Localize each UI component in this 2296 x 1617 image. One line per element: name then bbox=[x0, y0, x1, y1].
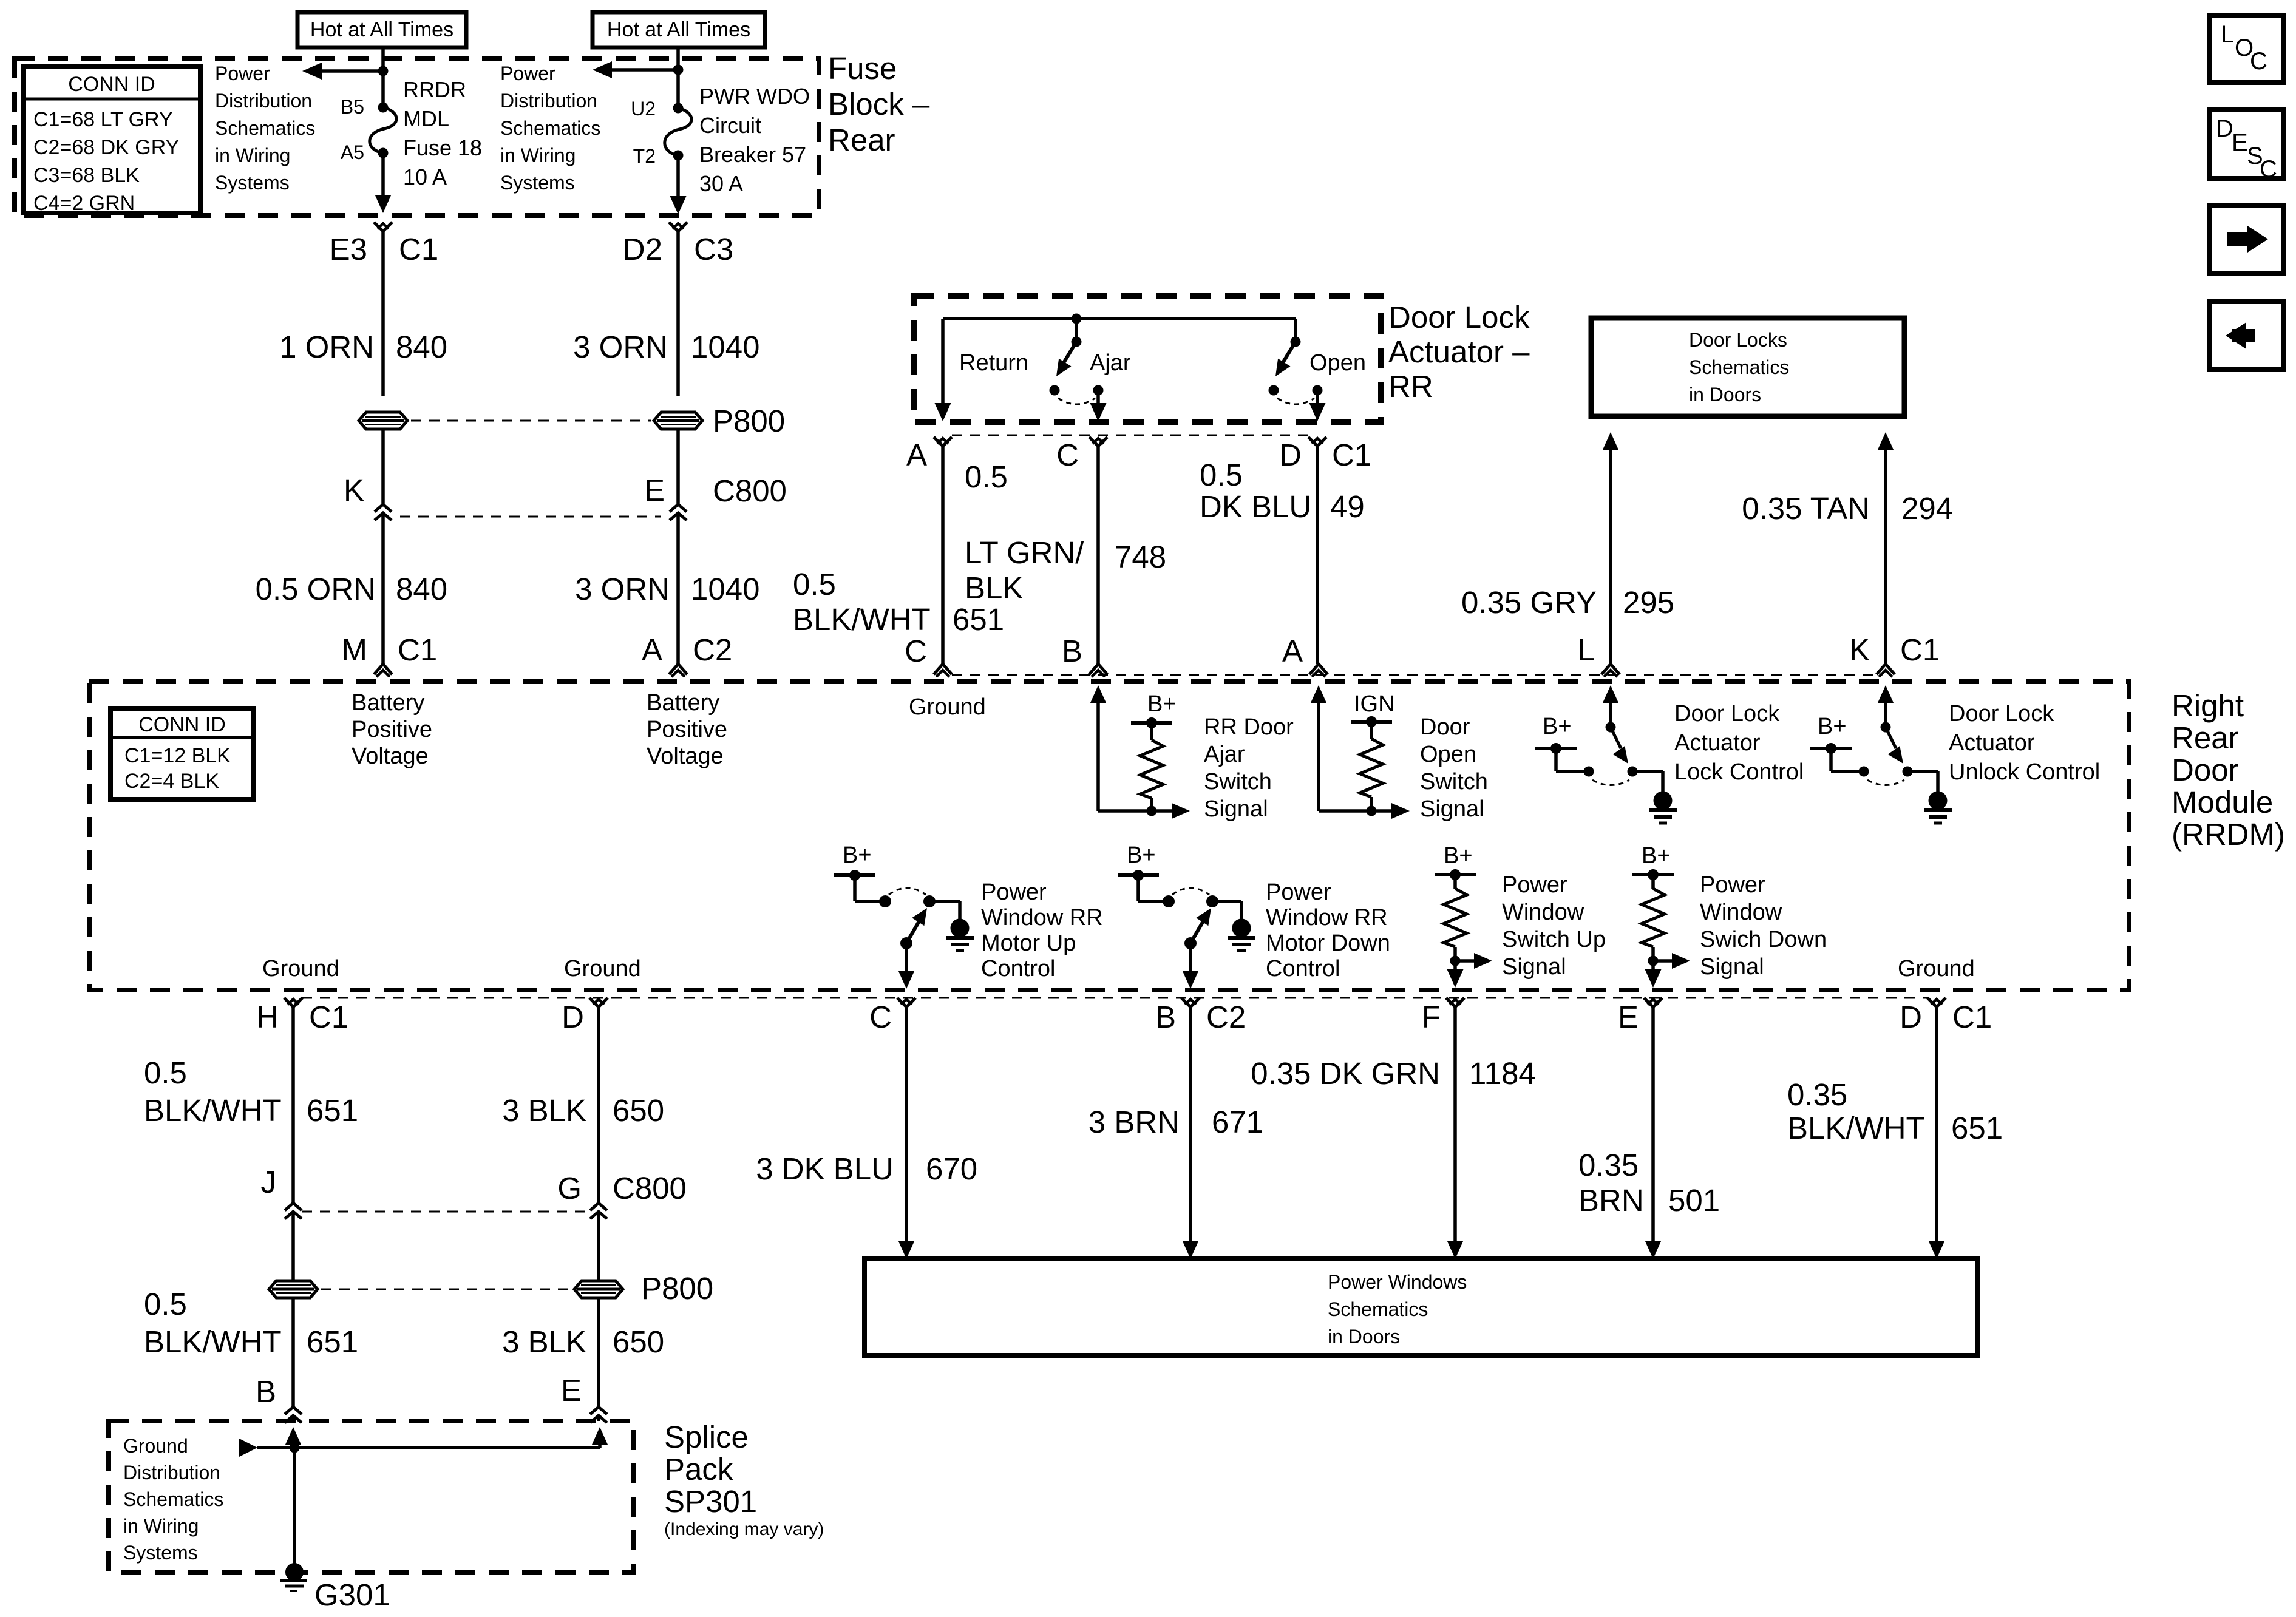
svg-text:Power: Power bbox=[981, 880, 1047, 905]
svg-text:0.35 TAN: 0.35 TAN bbox=[1742, 491, 1870, 526]
svg-text:Power: Power bbox=[1266, 880, 1331, 905]
svg-text:Systems: Systems bbox=[215, 172, 290, 194]
svg-text:Power: Power bbox=[215, 63, 270, 84]
svg-text:Fuse: Fuse bbox=[828, 51, 897, 86]
svg-text:P800: P800 bbox=[641, 1271, 713, 1306]
svg-text:B+: B+ bbox=[1818, 714, 1847, 739]
svg-text:Actuator –: Actuator – bbox=[1388, 334, 1530, 369]
svg-text:3 ORN: 3 ORN bbox=[573, 330, 668, 364]
svg-text:Door Lock: Door Lock bbox=[1949, 701, 2054, 727]
svg-text:Fuse 18: Fuse 18 bbox=[403, 135, 482, 160]
svg-text:Voltage: Voltage bbox=[352, 744, 429, 769]
svg-text:C: C bbox=[2260, 156, 2277, 183]
svg-text:RR: RR bbox=[1388, 369, 1433, 404]
svg-text:BLK: BLK bbox=[965, 571, 1023, 605]
svg-text:0.35: 0.35 bbox=[1578, 1148, 1639, 1182]
svg-text:G: G bbox=[557, 1171, 582, 1205]
svg-text:C1=68 LT GRY: C1=68 LT GRY bbox=[33, 108, 173, 131]
svg-text:10 A: 10 A bbox=[403, 164, 447, 189]
svg-text:Right: Right bbox=[2172, 688, 2244, 723]
svg-text:BLK/WHT: BLK/WHT bbox=[144, 1324, 282, 1359]
svg-text:P800: P800 bbox=[713, 404, 785, 438]
svg-text:C1: C1 bbox=[1332, 438, 1371, 472]
svg-text:Open: Open bbox=[1309, 350, 1366, 376]
svg-text:(Indexing may vary): (Indexing may vary) bbox=[664, 1519, 824, 1539]
svg-text:Schematics: Schematics bbox=[123, 1488, 223, 1510]
svg-text:Power Windows: Power Windows bbox=[1328, 1271, 1467, 1293]
svg-text:0.5: 0.5 bbox=[1200, 458, 1243, 492]
svg-text:L: L bbox=[1578, 632, 1595, 667]
svg-text:C3: C3 bbox=[694, 232, 733, 266]
svg-text:DK BLU: DK BLU bbox=[1200, 489, 1311, 524]
svg-text:Splice: Splice bbox=[664, 1420, 749, 1454]
svg-text:294: 294 bbox=[1901, 491, 1953, 526]
svg-text:C2=68 DK GRY: C2=68 DK GRY bbox=[33, 136, 179, 159]
svg-text:H: H bbox=[256, 1000, 279, 1034]
svg-text:in Doors: in Doors bbox=[1328, 1326, 1400, 1347]
svg-text:Signal: Signal bbox=[1700, 954, 1764, 980]
svg-text:Signal: Signal bbox=[1420, 796, 1484, 822]
svg-text:A: A bbox=[1282, 634, 1303, 668]
svg-text:Door Lock: Door Lock bbox=[1388, 300, 1530, 334]
svg-text:Rear: Rear bbox=[828, 123, 895, 157]
svg-text:L: L bbox=[2221, 21, 2234, 48]
svg-text:B+: B+ bbox=[1543, 714, 1572, 739]
svg-text:T2: T2 bbox=[633, 145, 656, 167]
svg-text:A: A bbox=[642, 632, 662, 667]
svg-text:IGN: IGN bbox=[1354, 691, 1395, 717]
svg-text:1184: 1184 bbox=[1469, 1056, 1536, 1091]
svg-text:D: D bbox=[2216, 115, 2233, 142]
svg-text:B: B bbox=[1155, 1000, 1176, 1034]
svg-text:3 DK BLU: 3 DK BLU bbox=[756, 1151, 894, 1186]
svg-text:Systems: Systems bbox=[123, 1542, 198, 1564]
svg-text:C2: C2 bbox=[1206, 1000, 1246, 1034]
svg-text:Open: Open bbox=[1420, 742, 1476, 767]
svg-text:Ground: Ground bbox=[1898, 956, 1975, 981]
svg-text:Hot at All Times: Hot at All Times bbox=[607, 18, 750, 41]
svg-text:Ground: Ground bbox=[123, 1435, 188, 1457]
svg-text:Unlock Control: Unlock Control bbox=[1949, 759, 2100, 785]
svg-text:D: D bbox=[1900, 1000, 1922, 1034]
svg-text:C1: C1 bbox=[1900, 632, 1940, 667]
svg-text:Signal: Signal bbox=[1502, 954, 1566, 980]
svg-text:Hot at All Times: Hot at All Times bbox=[310, 18, 453, 41]
svg-text:Power: Power bbox=[500, 63, 555, 84]
svg-text:3 BLK: 3 BLK bbox=[502, 1093, 586, 1128]
svg-text:Distribution: Distribution bbox=[215, 90, 312, 112]
svg-text:Motor Down: Motor Down bbox=[1266, 931, 1390, 956]
svg-text:LT GRN/: LT GRN/ bbox=[965, 535, 1084, 570]
svg-text:C1: C1 bbox=[309, 1000, 348, 1034]
svg-text:C: C bbox=[2250, 48, 2267, 75]
svg-text:650: 650 bbox=[613, 1324, 664, 1359]
svg-text:C: C bbox=[1056, 438, 1079, 472]
svg-text:G301: G301 bbox=[314, 1578, 390, 1612]
svg-text:PWR WDO: PWR WDO bbox=[699, 84, 810, 109]
svg-text:Control: Control bbox=[1266, 956, 1340, 981]
svg-text:C4=2 GRN: C4=2 GRN bbox=[33, 192, 135, 215]
svg-text:(RRDM): (RRDM) bbox=[2172, 817, 2285, 852]
svg-text:Door Lock: Door Lock bbox=[1674, 701, 1780, 727]
svg-text:Ajar: Ajar bbox=[1090, 350, 1131, 376]
svg-text:Swich Down: Swich Down bbox=[1700, 927, 1827, 952]
svg-text:D2: D2 bbox=[623, 232, 662, 266]
svg-text:Breaker 57: Breaker 57 bbox=[699, 142, 806, 167]
svg-text:A5: A5 bbox=[341, 141, 364, 163]
svg-text:Door: Door bbox=[1420, 714, 1470, 740]
svg-text:BLK/WHT: BLK/WHT bbox=[793, 602, 931, 637]
svg-text:840: 840 bbox=[396, 572, 447, 606]
svg-text:30 A: 30 A bbox=[699, 171, 743, 196]
svg-text:651: 651 bbox=[307, 1093, 358, 1128]
svg-text:in Wiring: in Wiring bbox=[500, 144, 576, 166]
svg-text:C2=4 BLK: C2=4 BLK bbox=[124, 770, 219, 793]
svg-text:B+: B+ bbox=[1127, 842, 1156, 868]
svg-text:in Wiring: in Wiring bbox=[215, 144, 290, 166]
svg-text:Positive: Positive bbox=[647, 717, 727, 742]
svg-text:0.5: 0.5 bbox=[965, 459, 1008, 494]
svg-text:Ground: Ground bbox=[564, 956, 641, 981]
svg-text:K: K bbox=[1849, 632, 1870, 667]
svg-text:650: 650 bbox=[613, 1093, 664, 1128]
svg-text:Positive: Positive bbox=[352, 717, 432, 742]
svg-text:Ajar: Ajar bbox=[1204, 742, 1245, 767]
svg-text:Return: Return bbox=[959, 350, 1028, 376]
svg-text:0.5: 0.5 bbox=[793, 567, 836, 602]
svg-text:C1=12 BLK: C1=12 BLK bbox=[124, 744, 231, 767]
svg-text:Lock Control: Lock Control bbox=[1674, 759, 1804, 785]
svg-text:670: 670 bbox=[926, 1151, 977, 1186]
svg-text:Window RR: Window RR bbox=[1266, 905, 1388, 931]
svg-text:Actuator: Actuator bbox=[1949, 730, 2035, 756]
svg-text:Switch Up: Switch Up bbox=[1502, 927, 1606, 952]
svg-text:651: 651 bbox=[953, 602, 1004, 637]
svg-text:Door: Door bbox=[2172, 753, 2239, 787]
svg-text:Window: Window bbox=[1700, 900, 1782, 925]
svg-text:C: C bbox=[905, 634, 927, 668]
svg-text:C800: C800 bbox=[713, 473, 787, 508]
svg-text:CONN ID: CONN ID bbox=[68, 73, 155, 96]
svg-text:MDL: MDL bbox=[403, 106, 449, 131]
svg-text:Switch: Switch bbox=[1204, 769, 1272, 795]
svg-text:Circuit: Circuit bbox=[699, 113, 761, 138]
svg-text:B+: B+ bbox=[843, 842, 872, 868]
svg-text:Door Locks: Door Locks bbox=[1689, 329, 1787, 351]
svg-text:Module: Module bbox=[2172, 785, 2273, 819]
svg-text:3 BRN: 3 BRN bbox=[1089, 1105, 1180, 1139]
svg-text:Distribution: Distribution bbox=[500, 90, 597, 112]
svg-text:Battery: Battery bbox=[352, 690, 424, 716]
svg-text:BRN: BRN bbox=[1578, 1183, 1644, 1218]
svg-text:Motor Up: Motor Up bbox=[981, 931, 1076, 956]
svg-text:Power: Power bbox=[1502, 872, 1567, 898]
svg-text:651: 651 bbox=[307, 1324, 358, 1359]
svg-text:F: F bbox=[1422, 1000, 1441, 1034]
svg-text:1 ORN: 1 ORN bbox=[279, 330, 374, 364]
svg-text:0.5: 0.5 bbox=[144, 1056, 187, 1090]
svg-text:in Wiring: in Wiring bbox=[123, 1515, 199, 1537]
svg-text:0.35 GRY: 0.35 GRY bbox=[1461, 585, 1597, 620]
svg-text:B: B bbox=[1062, 634, 1082, 668]
svg-text:BLK/WHT: BLK/WHT bbox=[144, 1093, 282, 1128]
svg-text:0.5 ORN: 0.5 ORN bbox=[256, 572, 376, 606]
svg-text:Control: Control bbox=[981, 956, 1056, 981]
svg-text:3 BLK: 3 BLK bbox=[502, 1324, 586, 1359]
svg-text:CONN ID: CONN ID bbox=[138, 713, 226, 736]
svg-text:Switch: Switch bbox=[1420, 769, 1488, 795]
svg-text:C1: C1 bbox=[1952, 1000, 1992, 1034]
svg-text:C800: C800 bbox=[613, 1171, 687, 1205]
svg-text:RRDR: RRDR bbox=[403, 77, 466, 102]
svg-text:E: E bbox=[561, 1373, 582, 1408]
svg-text:501: 501 bbox=[1668, 1183, 1720, 1218]
svg-text:748: 748 bbox=[1115, 540, 1166, 574]
svg-text:Actuator: Actuator bbox=[1674, 730, 1761, 756]
svg-text:Schematics: Schematics bbox=[500, 117, 600, 139]
svg-text:C1: C1 bbox=[399, 232, 438, 266]
svg-text:0.35 DK GRN: 0.35 DK GRN bbox=[1251, 1056, 1440, 1091]
svg-text:K: K bbox=[344, 473, 364, 507]
svg-text:M: M bbox=[342, 632, 367, 667]
svg-text:RR Door: RR Door bbox=[1204, 714, 1294, 740]
svg-text:Pack: Pack bbox=[664, 1452, 733, 1486]
svg-text:671: 671 bbox=[1212, 1105, 1263, 1139]
svg-text:Window: Window bbox=[1502, 900, 1584, 925]
svg-text:U2: U2 bbox=[631, 98, 656, 120]
svg-text:Ground: Ground bbox=[262, 956, 339, 981]
svg-text:B+: B+ bbox=[1147, 691, 1177, 717]
svg-text:0.5: 0.5 bbox=[144, 1287, 187, 1321]
svg-text:Schematics: Schematics bbox=[1689, 356, 1789, 378]
svg-text:Schematics: Schematics bbox=[215, 117, 315, 139]
svg-text:840: 840 bbox=[396, 330, 447, 364]
svg-text:Power: Power bbox=[1700, 872, 1765, 898]
svg-text:A: A bbox=[906, 438, 927, 472]
svg-text:1040: 1040 bbox=[691, 572, 759, 606]
svg-text:B+: B+ bbox=[1642, 843, 1671, 869]
svg-text:E: E bbox=[1618, 1000, 1639, 1034]
svg-text:Systems: Systems bbox=[500, 172, 575, 194]
svg-text:Voltage: Voltage bbox=[647, 744, 724, 769]
svg-text:C2: C2 bbox=[693, 632, 732, 667]
svg-text:3 ORN: 3 ORN bbox=[575, 572, 670, 606]
svg-text:Ground: Ground bbox=[909, 694, 986, 720]
svg-text:E: E bbox=[2232, 129, 2248, 156]
svg-text:Schematics: Schematics bbox=[1328, 1298, 1428, 1320]
svg-text:Distribution: Distribution bbox=[123, 1462, 220, 1483]
svg-text:J: J bbox=[261, 1165, 277, 1199]
svg-text:C1: C1 bbox=[398, 632, 437, 667]
svg-text:SP301: SP301 bbox=[664, 1484, 757, 1519]
svg-text:295: 295 bbox=[1623, 585, 1674, 620]
svg-text:E3: E3 bbox=[330, 232, 367, 266]
svg-text:651: 651 bbox=[1951, 1111, 2003, 1145]
svg-text:49: 49 bbox=[1330, 489, 1365, 524]
svg-text:D: D bbox=[562, 1000, 584, 1034]
svg-text:1040: 1040 bbox=[691, 330, 759, 364]
svg-text:B5: B5 bbox=[341, 96, 364, 118]
svg-text:B+: B+ bbox=[1444, 843, 1473, 869]
svg-text:Window RR: Window RR bbox=[981, 905, 1103, 931]
svg-text:D: D bbox=[1279, 438, 1302, 472]
svg-text:Block –: Block – bbox=[828, 87, 930, 121]
svg-text:Battery: Battery bbox=[647, 690, 719, 716]
svg-text:E: E bbox=[644, 473, 665, 507]
svg-text:in Doors: in Doors bbox=[1689, 384, 1761, 405]
svg-text:C3=68 BLK: C3=68 BLK bbox=[33, 164, 140, 187]
svg-text:Rear: Rear bbox=[2172, 720, 2239, 755]
svg-text:BLK/WHT: BLK/WHT bbox=[1787, 1111, 1925, 1145]
svg-text:B: B bbox=[256, 1374, 276, 1409]
svg-text:C: C bbox=[869, 1000, 892, 1034]
svg-text:0.35: 0.35 bbox=[1787, 1077, 1847, 1112]
svg-text:Signal: Signal bbox=[1204, 796, 1268, 822]
